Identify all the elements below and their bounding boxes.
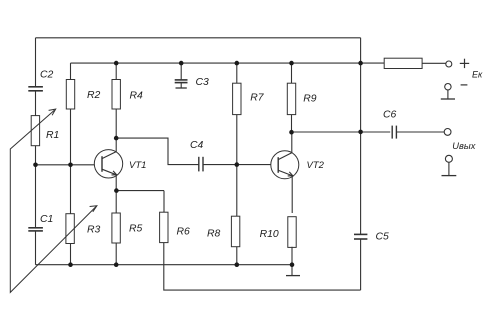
resistor R9 (287, 83, 295, 114)
svg-text:R6: R6 (177, 227, 191, 238)
resistor R7 (233, 83, 241, 114)
svg-text:R10: R10 (260, 229, 279, 240)
wire R5 leads (115, 191, 117, 265)
wire C6 to output terminal (396, 131, 444, 133)
terminal Uout (444, 129, 451, 136)
wire C2 to R1 (35, 91, 37, 116)
wire left column C2 top lead (35, 38, 37, 86)
node VT1 emitter (114, 188, 119, 193)
node rail x360 (358, 61, 363, 66)
wire VT1 base rail (36, 164, 103, 166)
svg-text:R3: R3 (87, 224, 101, 235)
wire R1 to base node (35, 146, 37, 165)
capacitor C6 (392, 126, 396, 139)
resistor R8 (231, 216, 239, 247)
svg-text:VT2: VT2 (307, 160, 325, 171)
node R9 top (289, 61, 294, 66)
wire R6 column (164, 191, 361, 291)
wire R10 bottom lead (291, 247, 293, 265)
node C4 right (235, 162, 240, 167)
node dots (33, 61, 363, 267)
wire R2 bottom lead (70, 109, 72, 165)
wire R8 leads (236, 165, 238, 265)
node VT1 collector (114, 136, 119, 141)
capacitor C1 (28, 228, 43, 231)
svg-text:C5: C5 (376, 232, 390, 243)
svg-text:Uвых: Uвых (452, 141, 475, 151)
wire to Ek terminal (422, 62, 446, 64)
node VT2 collector (289, 130, 294, 135)
svg-text:Eк: Eк (472, 69, 483, 79)
node R2 bottom (68, 163, 73, 168)
svg-text:R8: R8 (207, 229, 221, 240)
resistor supply (unlabeled) (384, 58, 422, 68)
minus sign (461, 84, 468, 86)
node ground (290, 262, 295, 267)
node R8 bottom (235, 262, 240, 267)
capacitor C3 (175, 63, 188, 88)
resistor R10 (288, 217, 296, 248)
wire top rail (36, 37, 361, 39)
ground (286, 265, 300, 276)
wire R2 top stub (70, 63, 72, 79)
resistor R3 (66, 214, 74, 244)
node C3 top (179, 61, 184, 66)
wire VT2 base (237, 164, 278, 166)
resistor R5 (112, 213, 120, 243)
terminal Ek plus (446, 61, 452, 67)
plus sign (460, 59, 469, 68)
capacitor C4 (199, 157, 203, 172)
svg-text:R2: R2 (87, 90, 101, 101)
wire bottom rail (36, 264, 293, 266)
svg-text:VT1: VT1 (129, 160, 146, 171)
svg-text:C1: C1 (40, 214, 53, 225)
wire R3 leads (70, 165, 72, 265)
svg-text:R7: R7 (250, 92, 265, 103)
wire C4 to R7 column (203, 164, 237, 166)
node R4 top (114, 61, 119, 66)
wire VT1 collector feedback to C4 (116, 138, 198, 165)
terminal Uout lower (442, 155, 457, 175)
resistor R2 (66, 80, 74, 110)
wire R4 leads (115, 63, 117, 138)
svg-text:R1: R1 (46, 130, 59, 141)
capacitor C2 (28, 87, 43, 91)
svg-text:C2: C2 (40, 70, 54, 81)
capacitor C5 (354, 234, 367, 239)
svg-text:R5: R5 (129, 223, 143, 234)
resistor R6 (160, 212, 168, 242)
wire VT2 collector node to output (292, 131, 391, 133)
transistor VT2 (271, 132, 299, 213)
resistor R4 (112, 80, 120, 110)
wire upper supply rail (71, 62, 385, 64)
wire R7 leads (236, 63, 238, 165)
node R5 bottom (114, 262, 119, 267)
svg-text:C3: C3 (196, 77, 210, 88)
node C6 branch (358, 130, 363, 135)
svg-text:C4: C4 (190, 140, 204, 151)
svg-text:R9: R9 (303, 93, 317, 104)
svg-text:C6: C6 (383, 110, 397, 121)
node R3 bottom (68, 262, 73, 267)
wire C5 to bottom wire (360, 239, 362, 290)
terminal Ek minus (441, 84, 455, 100)
resistor R1 (31, 116, 39, 146)
wire C1 to bottom rail (35, 231, 37, 265)
svg-text:R4: R4 (130, 91, 144, 102)
transistor VT1 (94, 138, 122, 191)
wire right vertical column (360, 38, 362, 234)
R1 R3 gang linkage with arrows (10, 109, 97, 292)
wire base node to C1 (35, 165, 37, 228)
wire VT1 emitter rail (116, 190, 164, 192)
node base left (33, 163, 38, 168)
wire R9 leads (291, 63, 293, 132)
node R7 top (235, 61, 240, 66)
